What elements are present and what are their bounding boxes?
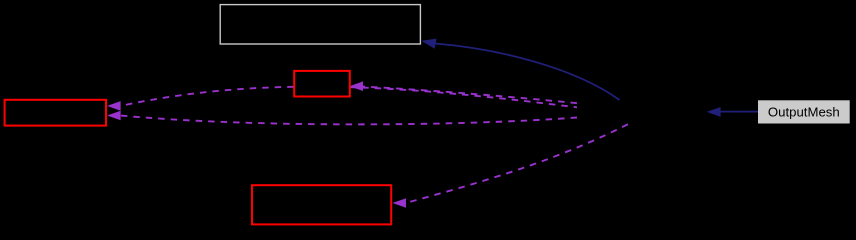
svg-text:OutputMesh: OutputMesh <box>768 104 840 119</box>
